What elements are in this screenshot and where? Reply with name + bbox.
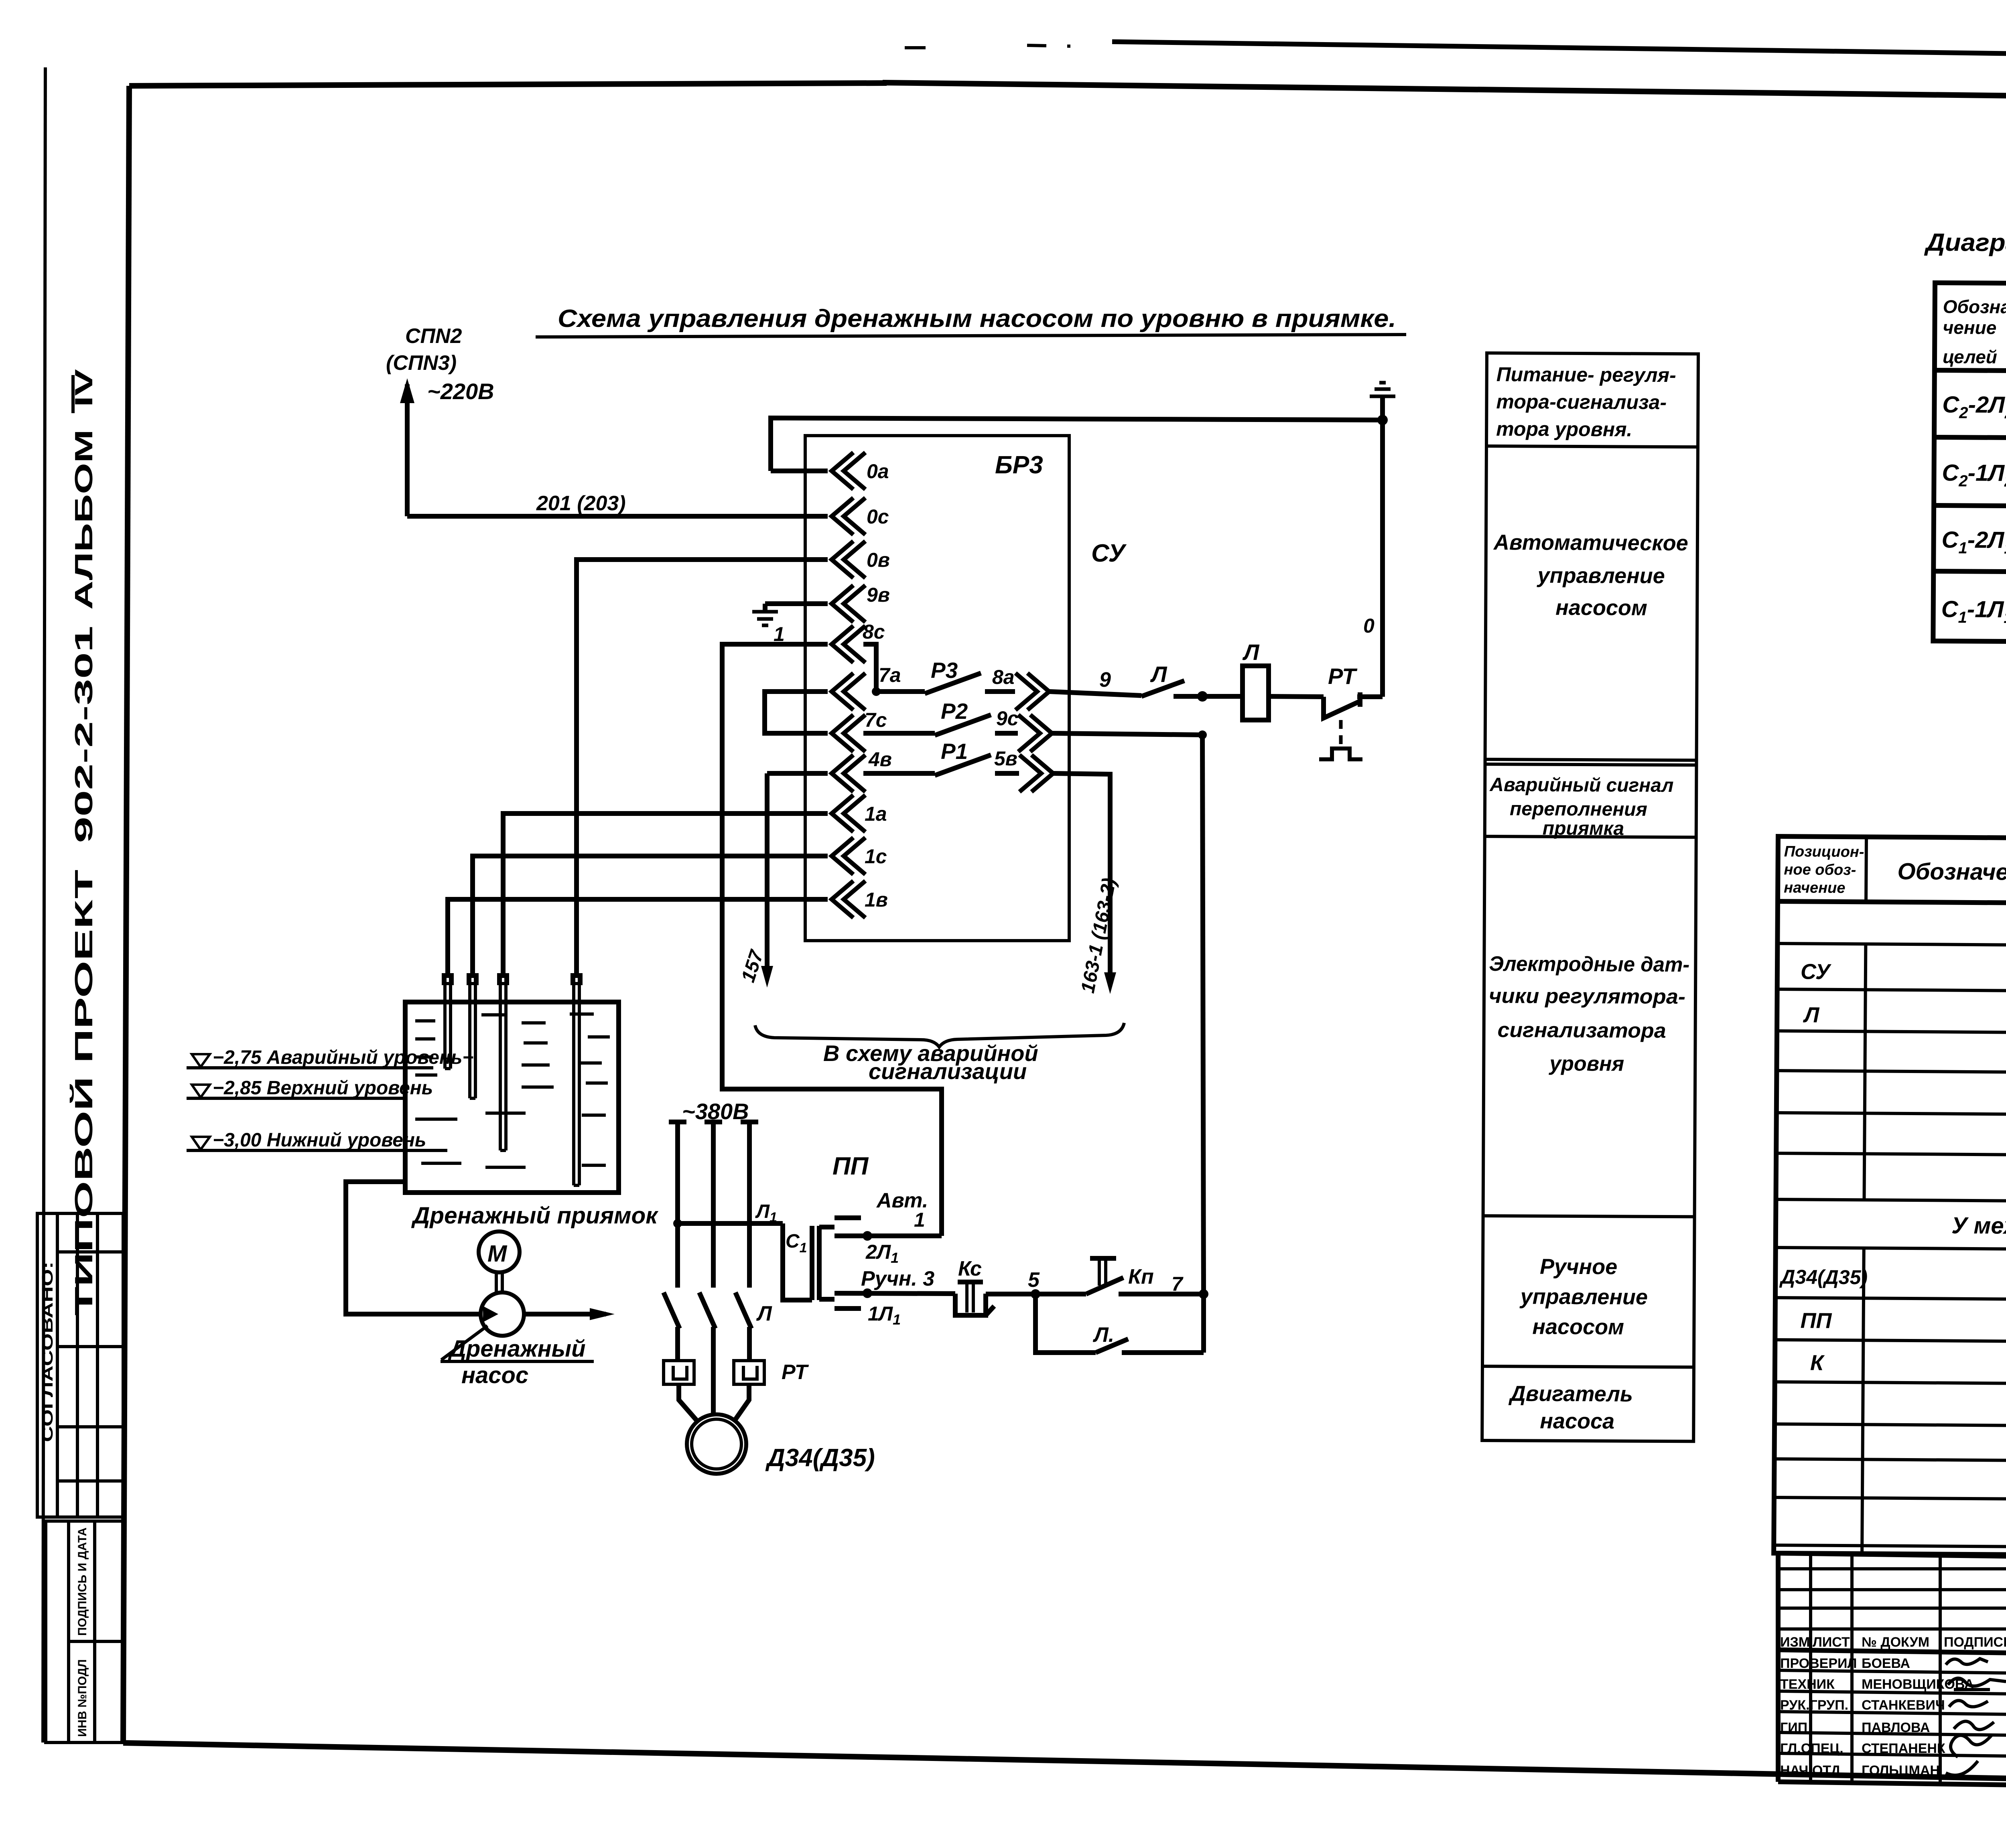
svg-text:Дренажный: Дренажный bbox=[447, 1336, 586, 1362]
wire 1a to electrode 3 bbox=[503, 813, 828, 976]
input chevron 0c bbox=[832, 498, 865, 535]
contact R3 bbox=[876, 689, 925, 694]
supply arrow 220V bbox=[405, 384, 410, 516]
svg-text:насоса: насоса bbox=[1540, 1409, 1614, 1434]
header bottom bbox=[1935, 370, 2006, 372]
pump outlet arrow bbox=[524, 1312, 606, 1317]
input chevron 1c bbox=[832, 838, 865, 874]
motor M circle bbox=[479, 1231, 520, 1272]
node 0 vertical bbox=[1380, 420, 1385, 697]
svg-text:С2-2Л2: С2-2Л2 bbox=[1942, 392, 2006, 422]
svg-text:Р1: Р1 bbox=[941, 739, 968, 764]
ground right bbox=[1380, 396, 1385, 420]
svg-text:управление: управление bbox=[1536, 564, 1665, 588]
pump triangle bbox=[483, 1306, 498, 1322]
frame top left part bbox=[129, 83, 887, 86]
svg-text:Кп: Кп bbox=[1128, 1265, 1154, 1288]
svg-text:управление: управление bbox=[1519, 1284, 1648, 1309]
electrode 4 bbox=[574, 976, 579, 1185]
svg-text:ИЗМ: ИЗМ bbox=[1780, 1635, 1810, 1650]
svg-text:Ручн. 3: Ручн. 3 bbox=[861, 1267, 934, 1290]
svg-text:Ручное: Ручное bbox=[1540, 1255, 1617, 1279]
pump leader line bbox=[441, 1326, 487, 1360]
svg-text:ГИП: ГИП bbox=[1780, 1720, 1807, 1735]
svg-text:0в: 0в bbox=[867, 549, 890, 571]
manual wire to Ks bbox=[834, 1293, 955, 1294]
svg-text:ИНВ №ПОДЛ: ИНВ №ПОДЛ bbox=[76, 1659, 89, 1737]
TITLE bbox=[536, 305, 1406, 337]
svg-text:СТАНКЕВИЧ: СТАНКЕВИЧ bbox=[1862, 1698, 1945, 1713]
table outline bbox=[1933, 283, 2006, 643]
signatures squiggles bbox=[1946, 1659, 1988, 1665]
svg-text:8а: 8а bbox=[992, 666, 1015, 688]
svg-text:1в: 1в bbox=[865, 889, 888, 911]
SWDIAG bbox=[1922, 229, 2006, 659]
table outline bbox=[1774, 836, 2006, 1558]
svg-text:Автоматическое: Автоматическое bbox=[1493, 530, 1688, 555]
lower sidebar block bbox=[46, 1521, 123, 1743]
pump circle bbox=[481, 1292, 524, 1336]
wire 9c to vertical bbox=[1052, 733, 1202, 735]
level mark 2.75 bbox=[192, 1054, 210, 1067]
PARTS bbox=[1774, 836, 2006, 1558]
svg-text:ПП: ПП bbox=[1800, 1308, 1832, 1333]
input chevron 1a bbox=[832, 795, 865, 832]
RT heater 2 bbox=[734, 1361, 764, 1384]
top strip small dashes bbox=[905, 46, 926, 49]
svg-text:ГЛ.СПЕЦ.: ГЛ.СПЕЦ. bbox=[1780, 1741, 1844, 1756]
svg-text:Р2: Р2 bbox=[941, 699, 968, 724]
wire 0a bbox=[771, 469, 828, 473]
frame left edge bbox=[123, 86, 129, 1743]
svg-text:ПРОВЕРИЛ: ПРОВЕРИЛ bbox=[1780, 1656, 1857, 1671]
section divider 5 bbox=[1482, 1366, 1694, 1367]
L contactor blades bbox=[664, 1292, 680, 1329]
svg-text:9с: 9с bbox=[996, 707, 1019, 730]
phase lines upper bbox=[675, 1122, 680, 1288]
Kp start button bbox=[1035, 1292, 1086, 1296]
contact R2 bbox=[863, 731, 935, 736]
svg-text:5в: 5в bbox=[994, 747, 1017, 770]
tank bbox=[405, 1002, 619, 1193]
svg-text:насос: насос bbox=[461, 1362, 528, 1388]
svg-text:ное обоз-: ное обоз- bbox=[1784, 861, 1856, 878]
svg-text:ТЕХНИК: ТЕХНИК bbox=[1780, 1677, 1835, 1692]
svg-text:Р3: Р3 bbox=[931, 658, 958, 683]
L blade contact bbox=[1141, 681, 1184, 696]
svg-text:9в: 9в bbox=[867, 584, 890, 606]
section divider 1 bbox=[1486, 446, 1698, 447]
column lines bbox=[1864, 837, 1868, 902]
svg-text:М: М bbox=[487, 1241, 508, 1267]
svg-text:Обозначение: Обозначение bbox=[1897, 858, 2006, 885]
wire 201(203) bbox=[407, 514, 828, 519]
svg-text:сигнализации: сигнализации bbox=[869, 1059, 1027, 1084]
svg-text:С1-1Л1: С1-1Л1 bbox=[1941, 596, 2006, 627]
header bottom bbox=[1778, 901, 2006, 906]
svg-text:чение: чение bbox=[1943, 317, 1996, 338]
svg-text:уровня: уровня bbox=[1548, 1052, 1624, 1076]
L1 tap wire bbox=[678, 1221, 783, 1226]
svg-text:Д34(Д35): Д34(Д35) bbox=[765, 1444, 875, 1472]
level mark 3.00 bbox=[192, 1137, 210, 1150]
svg-text:Позицион-: Позицион- bbox=[1784, 843, 1864, 860]
svg-text:~220В: ~220В bbox=[427, 379, 494, 404]
svg-text:переполнения: переполнения bbox=[1510, 798, 1647, 820]
svg-text:ПП: ПП bbox=[832, 1152, 869, 1180]
svg-text:ПОДПИСЬ И ДАТА: ПОДПИСЬ И ДАТА bbox=[76, 1527, 89, 1636]
svg-text:С1-2Л1: С1-2Л1 bbox=[1941, 527, 2006, 557]
L coil bbox=[1243, 666, 1269, 720]
svg-text:БОЕВА: БОЕВА bbox=[1862, 1656, 1910, 1671]
RT heater 1 bbox=[664, 1361, 694, 1384]
ground left bbox=[752, 612, 778, 625]
svg-text:тора-сигнализа-: тора-сигнализа- bbox=[1496, 390, 1667, 414]
junction 9c bbox=[1198, 730, 1207, 739]
electrode caps bbox=[443, 975, 581, 984]
leads to motor bbox=[679, 1384, 698, 1422]
po mestu band bbox=[1777, 943, 2006, 948]
electrode 3 bbox=[500, 976, 506, 1150]
long vertical control wire bbox=[1202, 735, 1204, 1294]
input chevron 0a bbox=[832, 452, 865, 489]
terminal 1 wire bbox=[834, 1233, 942, 1238]
Ruch fixed contact bbox=[834, 1306, 861, 1311]
svg-text:чики регулятора-: чики регулятора- bbox=[1489, 984, 1685, 1008]
svg-text:Л: Л bbox=[1242, 639, 1260, 665]
svg-text:−3,00 Нижний уровень: −3,00 Нижний уровень bbox=[213, 1130, 426, 1151]
RT dashed heater link bbox=[1339, 720, 1343, 747]
wire 1v to electrode 1 bbox=[448, 899, 828, 976]
section divider 4 bbox=[1483, 1216, 1695, 1217]
phase caps bbox=[669, 1120, 686, 1124]
svg-text:целей: целей bbox=[1943, 346, 1997, 367]
svg-text:Дренажный приямок: Дренажный приямок bbox=[411, 1203, 659, 1229]
output chevron 9c bbox=[1018, 715, 1052, 752]
electrode 2 bbox=[470, 976, 475, 1098]
svg-text:СТЕПАНЕНК: СТЕПАНЕНК bbox=[1862, 1741, 1945, 1756]
svg-text:1а: 1а bbox=[865, 803, 887, 825]
svg-text:Л: Л bbox=[756, 1302, 772, 1325]
svg-text:СПN2: СПN2 bbox=[405, 325, 462, 348]
wire 8c left and down to PP bbox=[722, 644, 942, 1236]
input chevron 7c bbox=[832, 715, 865, 752]
svg-text:насосом: насосом bbox=[1555, 596, 1647, 620]
svg-text:Обозна-: Обозна- bbox=[1943, 296, 2006, 317]
svg-text:Д34(Д35): Д34(Д35) bbox=[1779, 1266, 1868, 1288]
outer thin vertical line bbox=[43, 67, 45, 1743]
svg-text:СОГЛАСОВАНО:: СОГЛАСОВАНО: bbox=[39, 1262, 56, 1442]
motor D34 circle bbox=[687, 1414, 746, 1474]
svg-text:№ ДОКУМ: № ДОКУМ bbox=[1862, 1635, 1929, 1650]
wire 1c to electrode 2 bbox=[473, 856, 828, 976]
input chevron 4v bbox=[832, 755, 865, 792]
svg-text:Электродные дат-: Электродные дат- bbox=[1489, 952, 1689, 976]
electrode 1 bbox=[445, 976, 451, 1069]
svg-text:7а: 7а bbox=[879, 664, 901, 686]
input chevron 9v bbox=[832, 585, 865, 622]
section divider 3 bbox=[1485, 836, 1696, 837]
C1 packet switch bbox=[783, 1223, 812, 1300]
row lines bbox=[1934, 437, 2006, 439]
svg-text:0: 0 bbox=[1363, 615, 1375, 637]
SIDEBAR bbox=[37, 67, 123, 1743]
svg-text:РТ: РТ bbox=[782, 1361, 809, 1384]
svg-text:Л.: Л. bbox=[1092, 1323, 1114, 1347]
svg-text:РУК.ГРУП.: РУК.ГРУП. bbox=[1780, 1698, 1848, 1713]
svg-text:−2,85 Верхний уровень: −2,85 Верхний уровень bbox=[213, 1077, 433, 1099]
svg-text:9: 9 bbox=[1099, 668, 1111, 692]
svg-text:4в: 4в bbox=[868, 748, 892, 771]
motor-pump link bbox=[495, 1272, 498, 1293]
left grid verticals bbox=[1809, 1553, 1812, 1782]
svg-text:1: 1 bbox=[914, 1209, 925, 1231]
svg-text:РТ: РТ bbox=[1328, 663, 1358, 689]
loop 7a-7c bbox=[765, 692, 828, 733]
line 157 down arrow bbox=[765, 773, 770, 979]
phase lines lower bbox=[675, 1327, 680, 1361]
svg-text:Л: Л bbox=[1803, 1003, 1820, 1027]
svg-text:приямка: приямка bbox=[1543, 818, 1624, 840]
svg-text:сигнализатора: сигнализатора bbox=[1498, 1018, 1666, 1043]
wire 9 to L blade bbox=[1050, 692, 1141, 696]
top strip lower line / frame top right part bbox=[883, 83, 2006, 102]
svg-text:(СПN3): (СПN3) bbox=[386, 351, 457, 375]
output chevron 5v bbox=[1019, 755, 1053, 792]
water dashes bbox=[415, 1014, 610, 1167]
suction pipe bbox=[346, 1182, 481, 1314]
title underline bbox=[536, 335, 1406, 337]
wire 0v down to electrode 4 bbox=[577, 560, 828, 976]
svg-text:7с: 7с bbox=[865, 709, 887, 731]
svg-text:Питание- регуля-: Питание- регуля- bbox=[1496, 363, 1676, 386]
SUMP bbox=[187, 975, 659, 1388]
svg-text:8с: 8с bbox=[863, 621, 885, 643]
svg-text:С2-1Л2: С2-1Л2 bbox=[1942, 460, 2006, 490]
FUNCCOL bbox=[1482, 353, 1698, 1441]
junction top bbox=[1377, 415, 1388, 425]
top wire to ground bbox=[771, 418, 1383, 471]
svg-text:0а: 0а bbox=[867, 460, 889, 483]
RT contact bbox=[1324, 697, 1360, 718]
brace to alarm circuit bbox=[755, 1023, 1124, 1047]
POWER bbox=[664, 1099, 1208, 1474]
jumper 8c to 7a bbox=[863, 644, 876, 692]
svg-text:Схема управления дренажным нас: Схема управления дренажным насосом по ур… bbox=[558, 305, 1396, 333]
svg-text:ЛИСТ: ЛИСТ bbox=[1813, 1635, 1850, 1650]
svg-text:У механизма насосного агрега: У механизма насосного агрегата bbox=[1951, 1213, 2006, 1241]
left grid horizontals bbox=[1778, 1567, 2006, 1570]
svg-text:насосом: насосом bbox=[1532, 1315, 1624, 1339]
input chevron 1v bbox=[832, 881, 865, 918]
svg-text:ПАВЛОВА: ПАВЛОВА bbox=[1862, 1720, 1930, 1735]
wire 4v to 157 bbox=[767, 771, 828, 776]
soglasovano table bbox=[37, 1213, 123, 1517]
wire 9v to ground bbox=[765, 601, 828, 606]
output chevron 8a bbox=[1015, 673, 1049, 710]
input chevron 0v bbox=[832, 541, 865, 578]
frame bottom edge bbox=[123, 1743, 2006, 1789]
svg-text:начение: начение bbox=[1784, 879, 1845, 897]
svg-text:Л: Л bbox=[1150, 661, 1167, 687]
svg-text:ПОДПИСЬ: ПОДПИСЬ bbox=[1944, 1635, 2006, 1650]
svg-text:201 (203): 201 (203) bbox=[536, 492, 626, 515]
section divider 2 bbox=[1485, 759, 1697, 760]
svg-text:НАЧ.ОТД.: НАЧ.ОТД. bbox=[1780, 1763, 1844, 1778]
BRZ box bbox=[805, 436, 1069, 941]
input chevron 7a bbox=[832, 673, 865, 710]
input chevron 8c bbox=[832, 626, 865, 663]
svg-text:Двигатель: Двигатель bbox=[1509, 1381, 1633, 1406]
svg-text:1с: 1с bbox=[865, 845, 887, 868]
level mark 2.85 bbox=[192, 1085, 210, 1097]
svg-text:5: 5 bbox=[1028, 1268, 1040, 1292]
TITLEBLOCK bbox=[1778, 1553, 2006, 1809]
svg-text:БР3: БР3 bbox=[995, 451, 1043, 479]
junction before coil bbox=[1197, 691, 1208, 702]
svg-text:СУ: СУ bbox=[1091, 540, 1127, 567]
svg-text:Аварийный сигнал: Аварийный сигнал bbox=[1489, 774, 1673, 796]
svg-text:ГОЛЬЦМАН: ГОЛЬЦМАН bbox=[1862, 1763, 1940, 1778]
contact R1 bbox=[863, 771, 935, 776]
svg-text:тора уровня.: тора уровня. bbox=[1496, 418, 1632, 440]
row lines bbox=[1777, 989, 2006, 994]
L self-hold branch bbox=[1035, 1294, 1096, 1353]
Avt fixed contact bbox=[834, 1215, 861, 1220]
wire 5v to 163 line bbox=[1054, 773, 1110, 985]
svg-text:0с: 0с bbox=[867, 505, 889, 528]
svg-text:Кс: Кс bbox=[958, 1257, 982, 1280]
svg-text:Диаграмма переключателя: Диаграмма переключателя bbox=[1924, 229, 2006, 258]
svg-text:−2,75 Аварийный уровень−: −2,75 Аварийный уровень− bbox=[213, 1047, 473, 1068]
svg-text:К: К bbox=[1810, 1351, 1825, 1375]
outer lines bbox=[1778, 1553, 2006, 1564]
wire coil to RT bbox=[1269, 696, 1324, 697]
column outline bbox=[1482, 353, 1698, 1441]
svg-text:7: 7 bbox=[1172, 1273, 1184, 1295]
wire Ks to 5 bbox=[986, 1292, 1035, 1296]
svg-text:СУ: СУ bbox=[1801, 959, 1831, 984]
top strip upper line bbox=[1112, 42, 2006, 61]
